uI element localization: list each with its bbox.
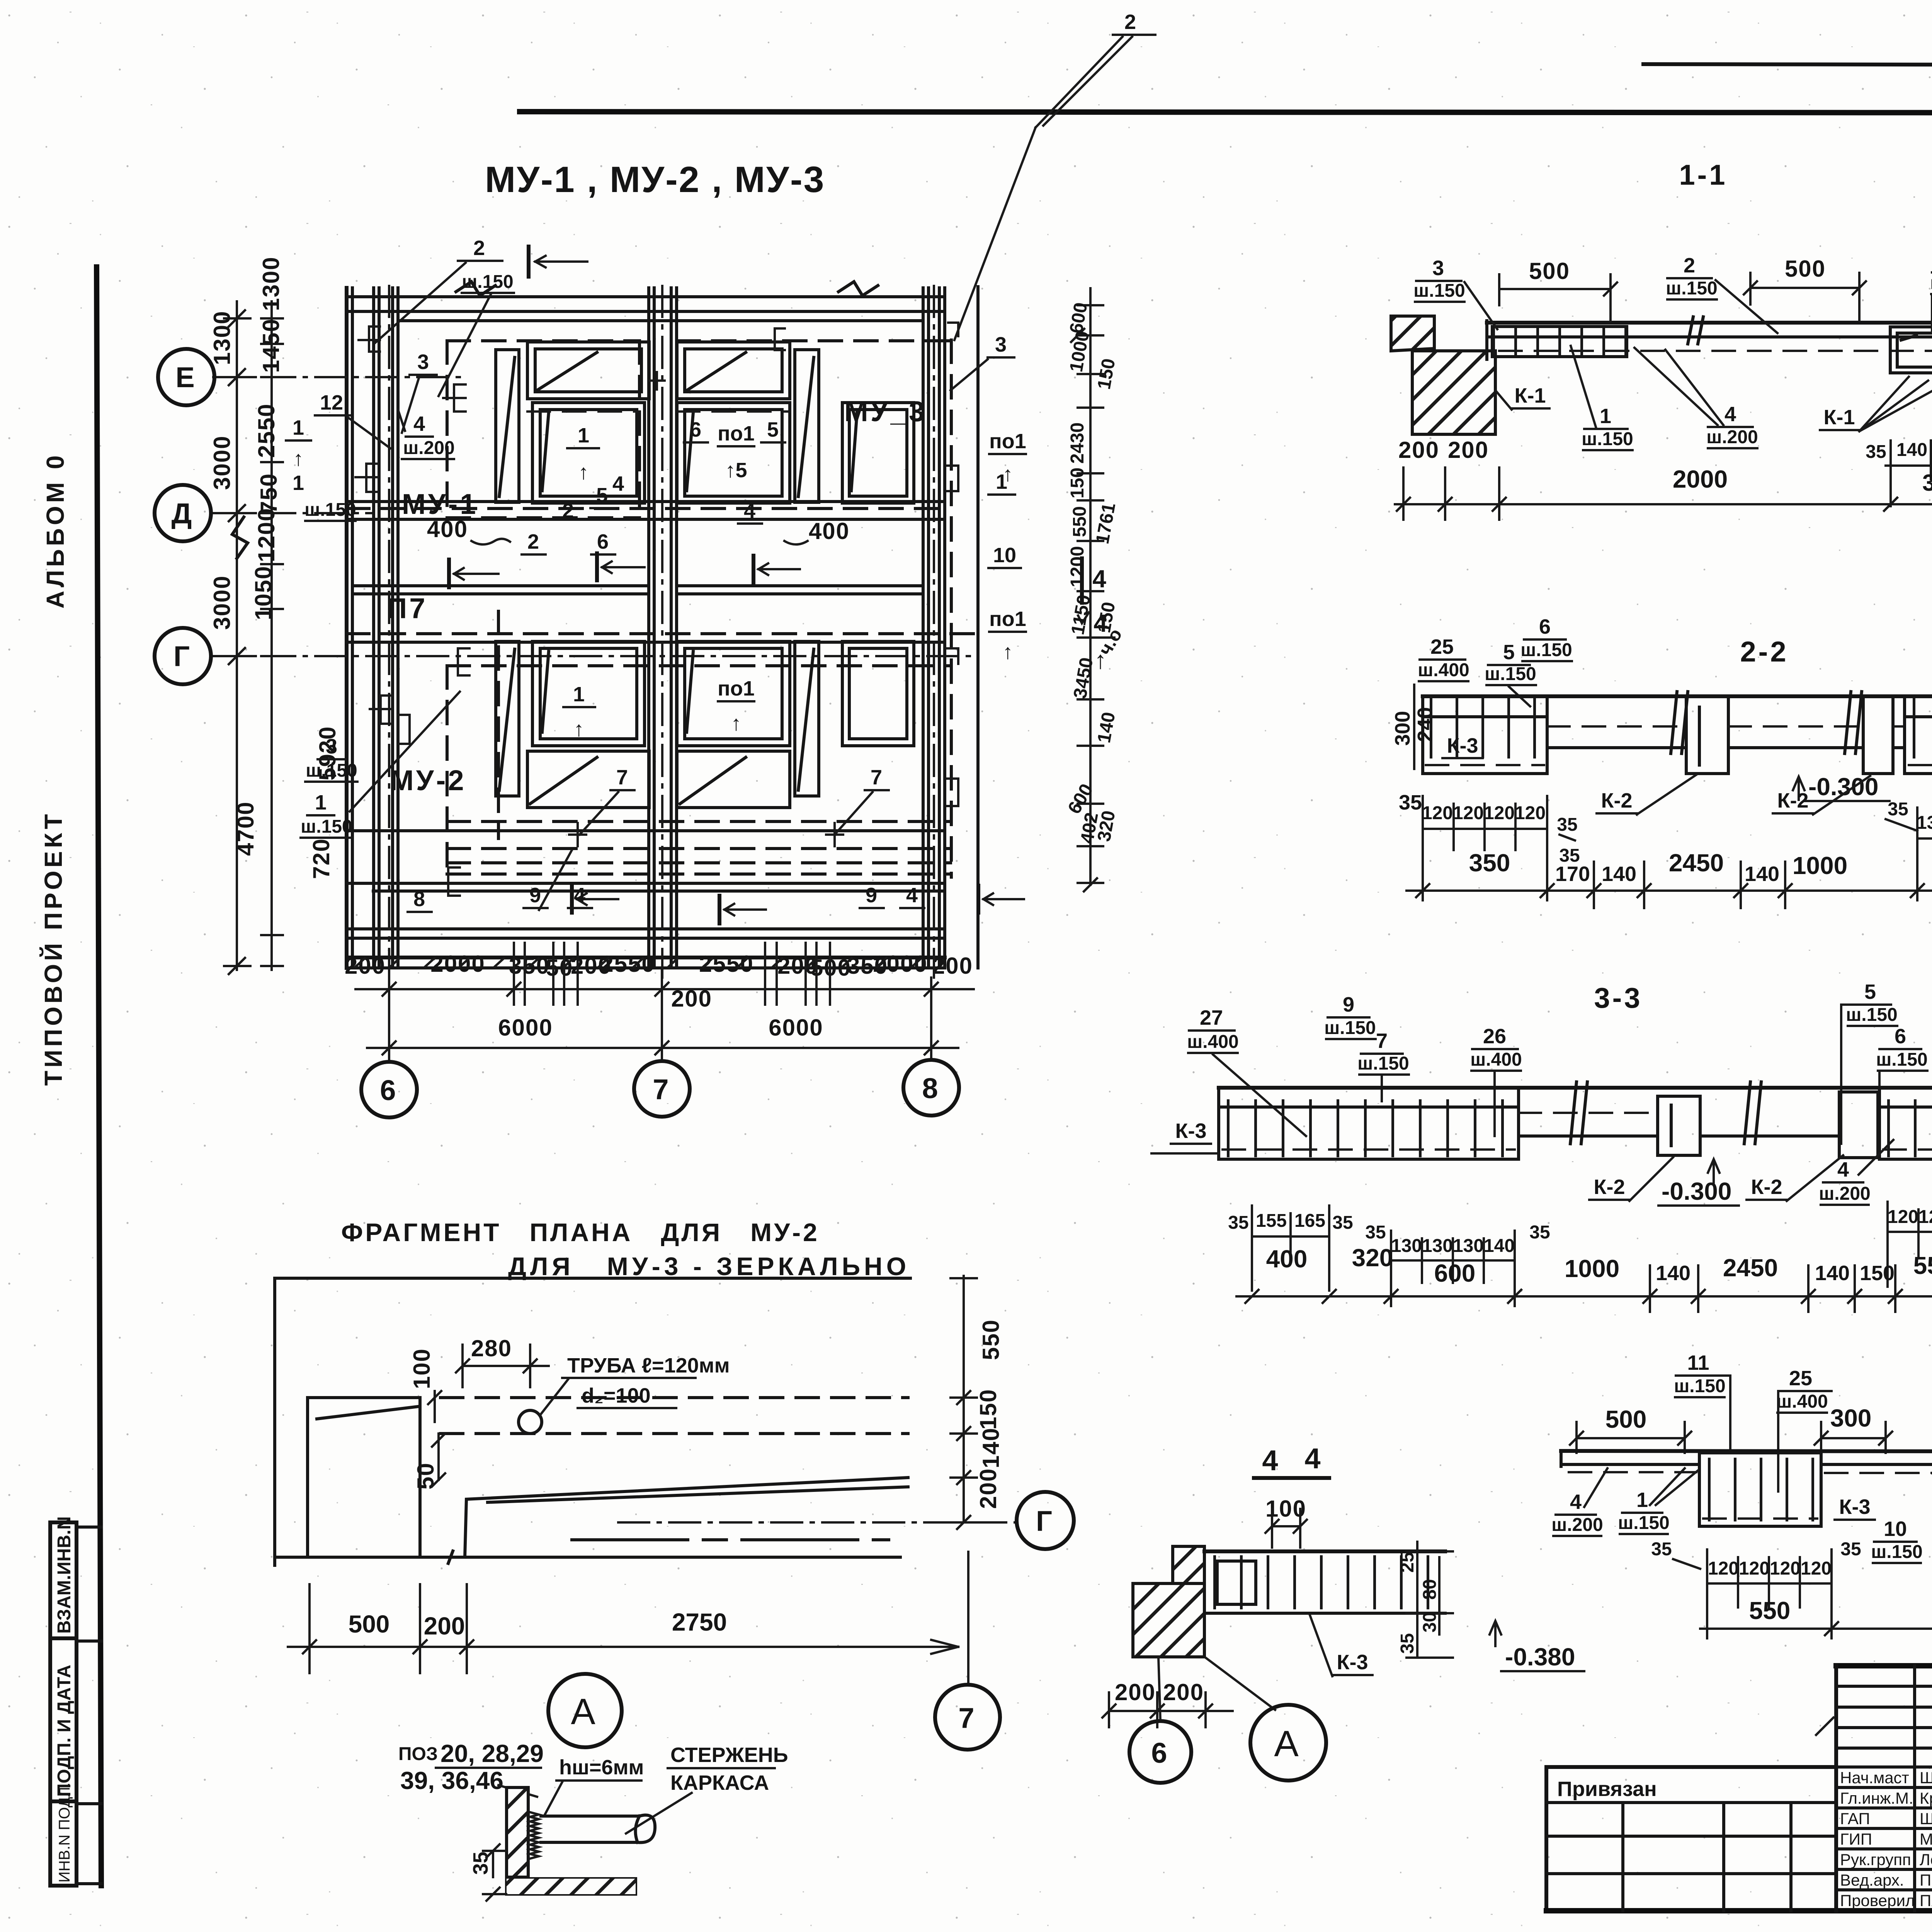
break 1 <box>1671 692 1688 753</box>
svg-text:35: 35 <box>1399 791 1422 814</box>
frag pilaster <box>308 1398 420 1557</box>
thin band 3 <box>1893 746 1905 749</box>
angle bottom leg <box>507 1877 636 1894</box>
left axis dim line outer <box>209 301 259 974</box>
svg-text:↑: ↑ <box>578 461 589 484</box>
svg-text:4: 4 <box>1837 1158 1849 1181</box>
svg-text:2430: 2430 <box>1067 422 1088 464</box>
svg-text:К-2: К-2 <box>1601 789 1633 812</box>
dim 500 right <box>1744 256 1866 321</box>
svg-text:2450: 2450 <box>1723 1254 1778 1282</box>
mu1 dashed right edge <box>638 341 641 518</box>
svg-text:К-1: К-1 <box>1515 384 1546 407</box>
svg-text:5920: 5920 <box>315 726 340 781</box>
ladder strip 44 <box>1204 1551 1445 1613</box>
DETAIL A WELD <box>398 1740 788 1901</box>
svg-text:350: 350 <box>1922 470 1932 496</box>
svg-text:39, 36,46: 39, 36,46 <box>400 1767 503 1794</box>
svg-text:4: 4 <box>1725 403 1736 426</box>
svg-text:9: 9 <box>866 884 877 907</box>
svg-text:7: 7 <box>958 1702 976 1734</box>
leader to A <box>1206 1658 1275 1710</box>
svg-text:140: 140 <box>1656 1262 1690 1285</box>
axis7 drop frag <box>935 1552 1000 1750</box>
svg-text:400: 400 <box>427 516 468 542</box>
band above G <box>347 634 978 642</box>
svg-text:hш=6мм: hш=6мм <box>559 1756 644 1779</box>
svg-text:ГИП: ГИП <box>1840 1830 1872 1848</box>
svg-text:35: 35 <box>1365 1222 1386 1243</box>
label 11 sh150 left <box>1674 1351 1730 1451</box>
circle 6 detail <box>1129 1721 1191 1783</box>
svg-text:50: 50 <box>546 955 573 981</box>
svg-text:6000: 6000 <box>498 1015 553 1041</box>
svg-text:К-1: К-1 <box>1824 406 1855 429</box>
svg-text:К-3: К-3 <box>1175 1119 1207 1143</box>
svg-text:1050: 1050 <box>250 566 276 620</box>
svg-text:200: 200 <box>1398 437 1439 463</box>
svg-text:1: 1 <box>1636 1488 1648 1512</box>
svg-text:ш.150: ш.150 <box>1357 1053 1409 1074</box>
dims 35 120 cluster left 66 <box>1651 1539 1861 1638</box>
label 7 sh150 33 <box>1357 1029 1409 1101</box>
axis circle D <box>155 485 211 541</box>
svg-text:6: 6 <box>1895 1025 1906 1048</box>
svg-text:по1: по1 <box>718 422 755 445</box>
svg-text:35: 35 <box>1332 1213 1353 1233</box>
svg-text:по1: по1 <box>718 677 755 700</box>
concrete wall lower <box>1412 351 1495 434</box>
svg-text:3000: 3000 <box>209 575 235 630</box>
step box 33 <box>1839 1092 1878 1158</box>
label K-1 mid <box>1820 377 1932 431</box>
mu1 dashed bottom <box>447 516 639 519</box>
svg-text:27: 27 <box>1200 1006 1223 1029</box>
svg-text:2-2: 2-2 <box>1740 636 1789 668</box>
svg-text:Парферов: Парферов <box>1920 1871 1932 1889</box>
mu1 dashed left edge <box>446 341 449 518</box>
panel right partial lower <box>842 641 914 746</box>
svg-text:5: 5 <box>1864 980 1876 1003</box>
right side po1 marker lower <box>989 607 1026 663</box>
svg-text:300: 300 <box>1830 1404 1872 1432</box>
svg-text:1300: 1300 <box>209 311 235 365</box>
svg-text:2: 2 <box>527 530 539 553</box>
svg-text:2: 2 <box>1124 10 1136 34</box>
rod cylinder <box>541 1815 655 1842</box>
label 5 sh150 33 <box>1841 980 1898 1144</box>
svg-text:ш.200: ш.200 <box>1551 1515 1603 1535</box>
label 4 sh200 below <box>1634 348 1758 448</box>
break marks <box>1688 317 1703 344</box>
thin band 2 <box>1728 746 1863 749</box>
small box mid2 <box>1863 696 1893 774</box>
svg-text:1000: 1000 <box>1565 1255 1619 1282</box>
svg-text:Рук.групп: Рук.групп <box>1840 1850 1911 1869</box>
axis 6 drop and circle <box>361 1005 417 1117</box>
label 2 sh150 <box>1666 254 1777 333</box>
svg-text:-0.380: -0.380 <box>1505 1643 1575 1671</box>
svg-text:2550: 2550 <box>600 951 655 977</box>
svg-text:12: 12 <box>320 391 343 414</box>
SECTION 4-4 <box>1102 1442 1584 1783</box>
svg-text:ПОДП. И ДАТА: ПОДП. И ДАТА <box>54 1665 75 1797</box>
dim 280 <box>456 1335 549 1387</box>
svg-text:К-2: К-2 <box>1777 789 1809 812</box>
svg-text:130: 130 <box>1453 1236 1484 1256</box>
svg-text:ш.150: ш.150 <box>1582 429 1633 449</box>
svg-text:140: 140 <box>1896 440 1927 460</box>
svg-text:2550: 2550 <box>253 403 279 458</box>
cut marks mid plan <box>449 553 1024 923</box>
dims 35 140 140 35 <box>1866 440 1932 506</box>
SECTION 6-6 <box>1551 1351 1932 1638</box>
svg-text:600: 600 <box>1434 1259 1476 1287</box>
bottom wall band <box>347 883 945 968</box>
svg-text:Гл.инж.М.: Гл.инж.М. <box>1840 1789 1913 1807</box>
svg-text:4: 4 <box>612 472 624 495</box>
axis circle E <box>158 349 214 405</box>
concrete wall upper <box>1391 316 1434 351</box>
svg-text:↑5: ↑5 <box>725 459 747 482</box>
svg-text:200: 200 <box>1115 1679 1156 1705</box>
svg-text:К-2: К-2 <box>1751 1175 1782 1199</box>
svg-text:2750: 2750 <box>672 1608 727 1636</box>
svg-text:500: 500 <box>1785 256 1826 282</box>
svg-text:К-3: К-3 <box>1447 734 1478 757</box>
panel strip upper left <box>527 342 649 399</box>
bottom dim text row <box>345 951 973 1012</box>
svg-text:550: 550 <box>1749 1597 1791 1624</box>
svg-text:25: 25 <box>1397 1552 1418 1573</box>
label 5 sh150 <box>1485 641 1536 706</box>
dims left cluster <box>1422 796 1578 900</box>
tb name rows upper <box>1836 1686 1932 1748</box>
svg-text:4: 4 <box>1304 1442 1323 1475</box>
svg-text:9: 9 <box>529 884 541 907</box>
bottom dim line 1 with ticks <box>355 943 974 1036</box>
svg-text:4: 4 <box>1570 1490 1582 1514</box>
concrete corner main <box>1133 1583 1204 1657</box>
frag slab <box>465 1478 908 1557</box>
label 1 sh150 66a <box>1618 1468 1698 1534</box>
svg-text:3: 3 <box>417 350 429 374</box>
svg-text:Д: Д <box>172 497 194 529</box>
svg-text:35: 35 <box>1228 1213 1248 1233</box>
svg-text:120: 120 <box>1453 803 1484 823</box>
svg-text:120: 120 <box>1515 803 1546 823</box>
svg-text:4: 4 <box>413 412 425 435</box>
svg-text:140: 140 <box>1815 1262 1850 1285</box>
band mid 66 <box>1821 1464 1932 1473</box>
svg-text:7: 7 <box>871 766 882 789</box>
svg-text:ВЗАМ.ИНВ.N: ВЗАМ.ИНВ.N <box>54 1516 75 1634</box>
svg-text:200: 200 <box>345 953 386 979</box>
svg-text:35: 35 <box>1651 1539 1672 1560</box>
text 400 left <box>427 516 510 544</box>
slab rebar dashed <box>1499 350 1932 352</box>
svg-text:ТИПОВОЙ ПРОЕКТ: ТИПОВОЙ ПРОЕКТ <box>39 811 67 1086</box>
dims left cluster 33 <box>1228 1206 1550 1306</box>
label 5 and 4 near panel1 <box>522 484 615 554</box>
svg-text:7: 7 <box>653 1073 671 1105</box>
rod label <box>626 1743 788 1833</box>
svg-text:200: 200 <box>1163 1679 1204 1705</box>
axis G dashdot <box>618 1521 1016 1524</box>
svg-text:3: 3 <box>1432 257 1444 280</box>
main dim row 33 <box>1236 1244 1932 1312</box>
right grid box 33 <box>1879 1088 1932 1159</box>
svg-text:АЛЬБОМ 0: АЛЬБОМ 0 <box>41 452 69 609</box>
svg-text:Мнаковский: Мнаковский <box>1920 1830 1932 1848</box>
dim 50 rotated <box>413 1434 445 1490</box>
svg-text:30: 30 <box>1420 1612 1440 1633</box>
svg-text:4700: 4700 <box>233 801 259 856</box>
svg-text:6: 6 <box>597 530 609 553</box>
wall line left inner <box>351 288 354 968</box>
stamp divider 1 <box>50 1636 77 1640</box>
extra dashed row upper <box>527 410 639 413</box>
left axis dim line inner <box>250 256 340 970</box>
dim 100 rotated <box>409 1348 441 1422</box>
dim 35 weld <box>469 1844 506 1901</box>
label 6 sh150 <box>1520 615 1572 661</box>
break 33 a <box>1570 1082 1587 1144</box>
SECTION 2-2 <box>1391 615 1932 908</box>
labels 7 under slabs <box>580 766 889 835</box>
svg-text:ш.150: ш.150 <box>1520 640 1572 660</box>
tb left part outline <box>1546 1767 1836 1911</box>
K-2 labels 33 <box>1589 1155 1843 1201</box>
svg-text:↑: ↑ <box>1003 463 1013 486</box>
svg-text:ПОЗ: ПОЗ <box>398 1744 438 1764</box>
axis E line <box>213 376 460 378</box>
TITLE BLOCK <box>1546 1666 1932 1911</box>
svg-text:130: 130 <box>1391 1236 1422 1256</box>
mu2 dashed inner vertical <box>497 611 500 838</box>
svg-text:400: 400 <box>809 518 850 544</box>
svg-text:Привязан: Привязан <box>1557 1777 1657 1801</box>
svg-text:1200: 1200 <box>253 508 279 562</box>
svg-text:4: 4 <box>574 884 585 907</box>
svg-text:ш.150: ш.150 <box>1413 281 1465 301</box>
svg-text:Проверил: Проверил <box>1840 1891 1915 1910</box>
svg-text:2000: 2000 <box>430 951 485 977</box>
frag dashed pipe lines <box>440 1396 908 1399</box>
svg-text:Г: Г <box>1036 1505 1054 1537</box>
svg-text:150: 150 <box>1067 468 1088 498</box>
frag ground line <box>275 1556 900 1559</box>
elevation -0.380 44 <box>1490 1621 1584 1671</box>
thin band <box>1547 746 1686 749</box>
svg-text:8: 8 <box>413 888 425 911</box>
right side po1 marker upper <box>989 430 1026 486</box>
axis8 wall bundle <box>923 288 945 968</box>
stamp divider 2 <box>50 1799 77 1803</box>
svg-text:ТРУБА ℓ=120мм: ТРУБА ℓ=120мм <box>567 1354 730 1377</box>
marker column 1/up/1 <box>286 416 356 521</box>
dims 200 200 <box>1398 437 1489 463</box>
svg-text:140: 140 <box>1602 862 1636 886</box>
svg-text:120: 120 <box>1918 1207 1932 1227</box>
svg-text:4: 4 <box>1262 1444 1280 1476</box>
svg-text:6: 6 <box>690 418 701 441</box>
svg-text:5: 5 <box>767 418 779 441</box>
svg-text:1: 1 <box>293 471 304 495</box>
svg-text:550: 550 <box>1913 1252 1932 1279</box>
right side 4 section mark <box>1078 558 1106 623</box>
slab left end <box>1485 321 1488 359</box>
P7 band <box>352 586 923 594</box>
svg-text:1: 1 <box>1600 405 1611 428</box>
panel strips lower row <box>527 751 790 808</box>
pipe circle <box>519 1410 542 1434</box>
svg-text:d₂=100: d₂=100 <box>582 1384 651 1407</box>
dims right cluster 33 <box>1888 1202 1932 1287</box>
svg-text:200: 200 <box>424 1612 465 1640</box>
svg-text:10: 10 <box>1884 1517 1907 1541</box>
svg-text:35: 35 <box>1397 1633 1418 1654</box>
person names <box>1920 1769 1932 1910</box>
plan right edge line <box>976 287 980 968</box>
svg-text:ш.200: ш.200 <box>1706 427 1758 447</box>
stamp tick d1 <box>77 1639 101 1643</box>
labels 6 5 4 on po1 <box>684 418 785 524</box>
left grid box 33 <box>1219 1088 1519 1159</box>
title 4 4 <box>1254 1442 1329 1478</box>
svg-text:720: 720 <box>308 838 334 879</box>
label 3 small <box>402 350 437 433</box>
4 marker right of plan <box>1087 609 1114 674</box>
slab top line <box>1487 321 1932 325</box>
beam box 1 66 <box>1699 1453 1821 1526</box>
panel vstrip left <box>496 350 519 502</box>
svg-text:100: 100 <box>409 1348 435 1389</box>
svg-text:120: 120 <box>1888 1207 1918 1227</box>
panel slab 1 upper left <box>532 403 645 503</box>
wall joint ticks bottom band <box>355 958 921 967</box>
svg-text:400: 400 <box>1266 1245 1308 1273</box>
band 33 b <box>1700 1134 1839 1138</box>
dim 500 left 66 <box>1570 1405 1691 1453</box>
svg-text:35: 35 <box>1557 815 1577 835</box>
svg-text:50: 50 <box>413 1462 439 1490</box>
label 4 sh200 <box>398 410 455 459</box>
band 33 a <box>1519 1134 1658 1138</box>
svg-text:ИНВ.N ПОДЛ.: ИНВ.N ПОДЛ. <box>56 1782 73 1883</box>
label 3 sh150 <box>1413 257 1497 329</box>
wall line left outer <box>345 288 349 968</box>
label 1 sh150 left lower <box>301 692 460 838</box>
stamp column box <box>50 1522 77 1886</box>
label 10 sh150 66 <box>1871 1517 1922 1563</box>
frag bottom dim <box>288 1584 958 1673</box>
svg-text:↑: ↑ <box>1094 646 1107 674</box>
svg-text:3-3: 3-3 <box>1594 982 1643 1014</box>
svg-text:150: 150 <box>1860 1262 1895 1285</box>
label 25 sh400 mid <box>1776 1367 1832 1492</box>
svg-text:3000: 3000 <box>209 435 235 490</box>
svg-text:1-1: 1-1 <box>1679 159 1728 191</box>
svg-text:Логинова: Логинова <box>1920 1850 1932 1869</box>
svg-text:Вед.арх.: Вед.арх. <box>1840 1871 1904 1889</box>
right grid box <box>1905 696 1932 774</box>
svg-text:7: 7 <box>616 766 628 789</box>
label 3 sh150 left lower <box>305 735 357 782</box>
dashed boundary right <box>950 340 953 877</box>
svg-text:140: 140 <box>1484 1236 1515 1256</box>
tb bottom <box>1546 1908 1932 1913</box>
svg-text:7: 7 <box>1376 1029 1388 1053</box>
privyazan inner lines <box>1546 1803 1836 1911</box>
svg-text:ш.150: ш.150 <box>1618 1513 1669 1533</box>
right side annotation 10 <box>988 544 1021 568</box>
svg-text:МУ-1 , МУ-2 , МУ-3: МУ-1 , МУ-2 , МУ-3 <box>485 159 825 200</box>
label 4 sh200 33 <box>1819 1140 1893 1205</box>
svg-text:2000: 2000 <box>1673 465 1728 493</box>
svg-text:МУ-2: МУ-2 <box>390 764 466 796</box>
panel right partial upper <box>842 403 914 503</box>
svg-text:1: 1 <box>573 683 585 706</box>
frag right dim column <box>951 1276 1004 1529</box>
cut mark 2 top <box>529 247 587 277</box>
SECTION 3-3 <box>1151 980 1932 1312</box>
break zigzag left <box>232 517 248 558</box>
svg-text:2450: 2450 <box>1669 849 1724 877</box>
pipe label <box>540 1354 730 1415</box>
svg-text:120: 120 <box>1770 1558 1801 1579</box>
svg-text:120: 120 <box>1739 1558 1770 1579</box>
tb outer top <box>1836 1663 1932 1668</box>
svg-text:ш.400: ш.400 <box>1470 1049 1522 1070</box>
svg-text:4: 4 <box>1092 565 1106 593</box>
svg-text:1: 1 <box>578 424 589 447</box>
stirrup ladder left <box>1492 327 1627 357</box>
top border main line <box>520 112 1932 113</box>
svg-text:↑: ↑ <box>574 718 584 741</box>
label 1 sh150 below <box>1571 346 1633 450</box>
axis D stub <box>213 512 371 514</box>
svg-text:550: 550 <box>1070 506 1090 537</box>
weld plate vertical <box>507 1787 528 1877</box>
label 25 sh400 <box>1418 635 1469 681</box>
support box A <box>1890 327 1932 373</box>
svg-text:КАРКАСА: КАРКАСА <box>670 1771 769 1794</box>
text 400 right <box>784 518 850 544</box>
tb verticals <box>1834 1666 1838 1911</box>
svg-text:80: 80 <box>1420 1579 1440 1600</box>
svg-text:Е: Е <box>175 361 197 393</box>
svg-text:550: 550 <box>978 1319 1004 1360</box>
svg-text:8: 8 <box>922 1072 940 1104</box>
slab bottom line <box>1487 335 1932 338</box>
label 9 sh150 33 <box>1324 993 1376 1039</box>
svg-text:6: 6 <box>380 1074 398 1106</box>
svg-text:6: 6 <box>1151 1737 1169 1769</box>
frag top line <box>275 1277 910 1280</box>
panel slab 1 lower <box>532 641 645 746</box>
stamp tick top <box>77 1526 101 1529</box>
bottom cut labels <box>408 850 924 912</box>
label 27 sh400 33 <box>1187 1006 1306 1136</box>
svg-text:11: 11 <box>1687 1351 1709 1374</box>
svg-text:ш.400: ш.400 <box>1930 273 1932 293</box>
svg-text:240: 240 <box>1413 707 1437 742</box>
label 6 sh150 33 <box>1876 1025 1927 1136</box>
svg-text:А: А <box>1274 1723 1302 1764</box>
svg-text:170: 170 <box>1555 862 1590 886</box>
svg-text:ш.150: ш.150 <box>304 500 356 520</box>
